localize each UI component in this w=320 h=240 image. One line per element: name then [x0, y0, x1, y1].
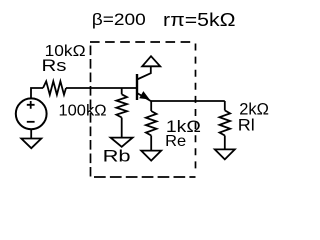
emitter arrowhead	[140, 92, 149, 99]
resistor Rs	[43, 81, 66, 94]
transistor Q1 collector lead	[137, 66, 151, 79]
svg-text:β=200: β=200	[92, 10, 146, 29]
wire Rl top	[224, 101, 226, 110]
ground under Rl	[215, 149, 235, 159]
svg-text:Re: Re	[165, 133, 186, 150]
ground under Re	[141, 151, 161, 161]
wire source top to Rs	[31, 88, 43, 99]
dashed box bottom edge	[94, 176, 196, 178]
wire Re to ground	[150, 136, 152, 151]
resistor Rb	[116, 94, 127, 117]
ground under Rb	[111, 138, 133, 147]
svg-text:100kΩ: 100kΩ	[59, 103, 107, 120]
svg-text:Rl: Rl	[238, 115, 255, 134]
ground under source	[21, 139, 41, 149]
svg-text:Rs: Rs	[42, 56, 67, 75]
transistor Q1 emitter lead	[137, 93, 151, 101]
svg-text:rπ=5kΩ: rπ=5kΩ	[163, 10, 236, 30]
wire emitter node down to Re	[150, 101, 152, 111]
dashed box right edge	[195, 44, 197, 170]
source Vs circle	[16, 98, 47, 129]
resistor Re	[146, 111, 157, 136]
collector arrow (points up)	[142, 56, 160, 66]
wire Rl to ground	[224, 136, 226, 150]
wire base wire to Rb tap	[121, 88, 123, 94]
wire Rs to base	[66, 87, 137, 89]
wire emitter node to Rl	[151, 100, 225, 102]
dashed box top edge (small-signal model boundary)	[90, 41, 196, 43]
dashed box left edge	[90, 46, 92, 177]
transistor Q1 base bar	[136, 74, 138, 100]
resistor Rl	[220, 110, 231, 135]
source plus sign	[27, 101, 35, 109]
wire source bottom to ground	[30, 129, 32, 138]
source minus sign	[27, 121, 35, 123]
wire Rb to ground	[121, 118, 123, 138]
svg-text:Rb: Rb	[103, 147, 131, 166]
